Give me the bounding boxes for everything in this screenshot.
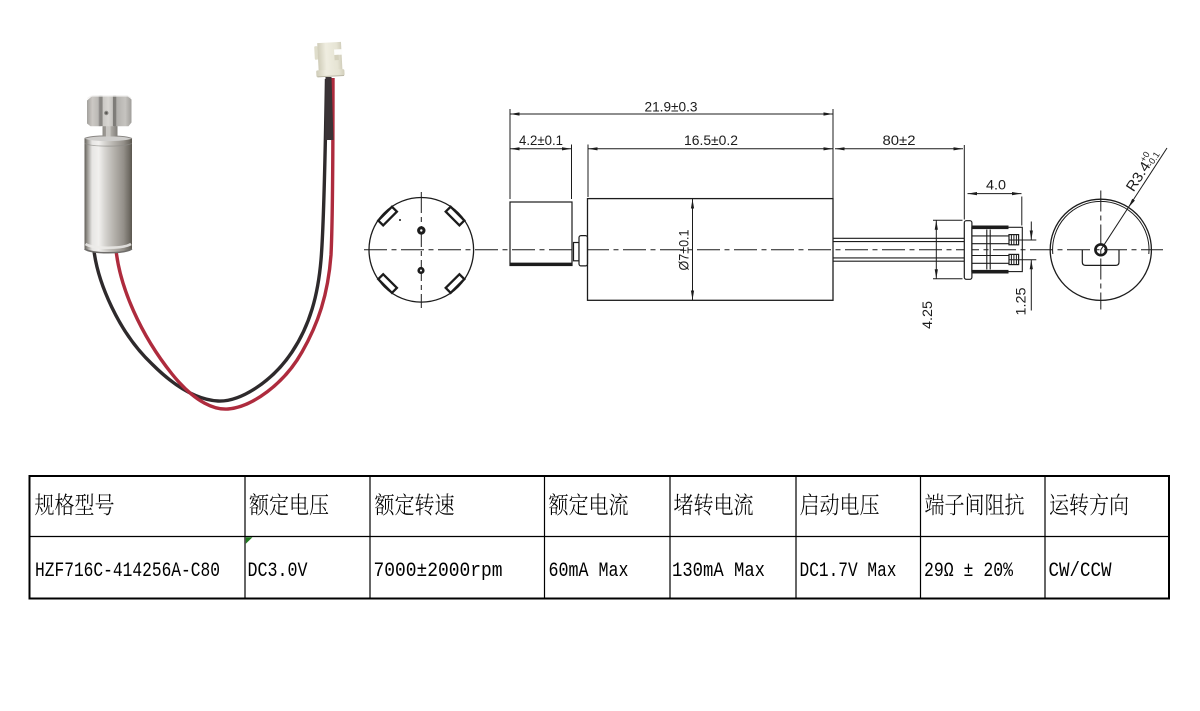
- right end view circle: [1050, 199, 1151, 300]
- keyway notch: [1082, 250, 1119, 266]
- header 额定电流: [549, 493, 628, 515]
- specification table: [30, 476, 1170, 599]
- inner chamfer arc: [1053, 201, 1149, 254]
- right view vertical center line: [1100, 191, 1102, 310]
- left view mounting tabs: [446, 207, 465, 226]
- left end view circle: [369, 198, 474, 303]
- svg-text:4.0: 4.0: [986, 177, 1006, 193]
- dimension 4.25: [933, 220, 963, 278]
- horizontal center line (axis): [364, 249, 1163, 251]
- red lead wire: [116, 78, 333, 409]
- dimension 16.5±0.2: [588, 148, 833, 150]
- dimension 4.0: [968, 193, 1022, 195]
- svg-text:7000±2000rpm: 7000±2000rpm: [374, 560, 503, 583]
- green cell marker: [246, 537, 253, 544]
- lead wires (side view): [833, 237, 964, 239]
- left view vertical center line: [420, 192, 422, 308]
- header 规格型号: [35, 493, 114, 515]
- svg-text:HZF716C-414256A-C80: HZF716C-414256A-C80: [35, 560, 220, 583]
- motor body (side view): [588, 199, 834, 301]
- lower crimp terminal: [972, 256, 1009, 264]
- header 额定转速: [375, 493, 454, 515]
- radius leader R3.4: [1101, 148, 1167, 250]
- svg-text:CW/CCW: CW/CCW: [1049, 560, 1112, 583]
- table column dividers: [245, 476, 1045, 599]
- connector flange (side view): [964, 221, 972, 280]
- dimension Ø7±0.1: [692, 199, 694, 300]
- eccentric weight (photo): [87, 96, 132, 126]
- shaft circle: [1095, 244, 1106, 255]
- svg-text:21.9±0.3: 21.9±0.3: [645, 99, 698, 115]
- eccentric weight (side view): [510, 202, 572, 266]
- connector housing outline: [972, 227, 1022, 271]
- housing top wall: [972, 226, 1009, 230]
- upper crimp terminal: [972, 236, 1009, 244]
- dimension 80±2: [835, 148, 963, 150]
- header 额定电压: [250, 493, 329, 515]
- left view terminal dots: [417, 226, 425, 234]
- svg-text:DC1.7V Max: DC1.7V Max: [800, 560, 897, 583]
- svg-text:Ø7±0.1: Ø7±0.1: [676, 229, 692, 270]
- header 运转方向: [1050, 493, 1128, 515]
- svg-text:130mA Max: 130mA Max: [672, 560, 765, 583]
- dimension 1.25: [1009, 240, 1037, 260]
- shaft washer small: [574, 243, 580, 261]
- housing bottom wall: [972, 270, 1009, 274]
- terminal divider bars: [987, 230, 990, 270]
- svg-text:1.25: 1.25: [1013, 287, 1029, 315]
- svg-text:4.2±0.1: 4.2±0.1: [519, 132, 563, 148]
- shaft collar: [579, 236, 588, 266]
- header 启动电压: [800, 493, 878, 515]
- photo: vibration motor with wires and connector: [85, 42, 345, 409]
- dimension 4.2±0.1: [510, 148, 572, 150]
- svg-text:60mA Max: 60mA Max: [549, 560, 629, 583]
- svg-text:4.25: 4.25: [919, 301, 935, 329]
- header 堵转电流: [674, 493, 753, 515]
- motor body (photo): [85, 136, 133, 253]
- svg-text:80±2: 80±2: [883, 132, 916, 148]
- shaft hub (photo): [103, 126, 118, 137]
- white connector (photo): [314, 42, 345, 78]
- svg-text:29Ω ± 20%: 29Ω ± 20%: [924, 560, 1014, 583]
- dimension 21.9±0.3: [510, 113, 833, 115]
- table row divider: [30, 536, 1170, 538]
- black lead wire: [94, 79, 327, 401]
- svg-text:16.5±0.2: 16.5±0.2: [684, 132, 738, 148]
- header 端子间阻抗: [925, 493, 1024, 515]
- svg-text:DC3.0V: DC3.0V: [248, 560, 308, 583]
